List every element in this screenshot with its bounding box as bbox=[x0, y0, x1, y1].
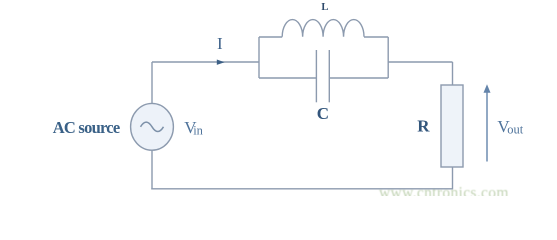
svg-text:C: C bbox=[317, 104, 329, 123]
svg-text:R: R bbox=[417, 116, 430, 135]
svg-text:www.cntronics.com: www.cntronics.com bbox=[379, 184, 509, 196]
svg-text:in: in bbox=[193, 124, 203, 138]
svg-text:AC source: AC source bbox=[53, 118, 120, 137]
svg-text:L: L bbox=[321, 2, 328, 13]
svg-text:I: I bbox=[217, 34, 223, 53]
svg-text:out: out bbox=[507, 123, 524, 137]
